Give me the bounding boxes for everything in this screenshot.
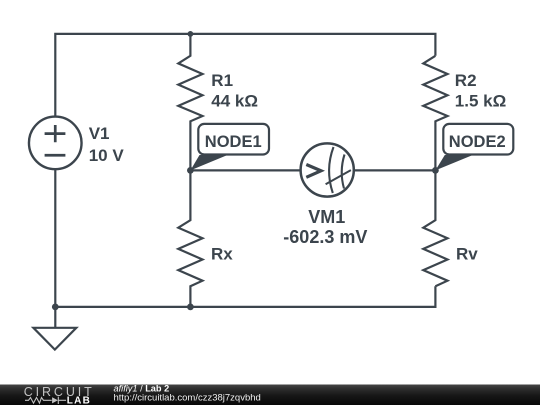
svg-text:Rx: Rx [211, 245, 233, 264]
svg-text:1.5 kΩ: 1.5 kΩ [455, 91, 506, 110]
svg-text:Rv: Rv [456, 245, 478, 264]
svg-text:http://circuitlab.com/czz38j7z: http://circuitlab.com/czz38j7zqvbhd [114, 393, 261, 404]
svg-text:NODE1: NODE1 [205, 133, 262, 151]
svg-text:44 kΩ: 44 kΩ [211, 91, 258, 110]
svg-text:-602.3 mV: -602.3 mV [283, 227, 367, 247]
svg-text:R1: R1 [211, 71, 233, 90]
svg-text:10 V: 10 V [89, 146, 125, 165]
svg-text:R2: R2 [455, 71, 477, 90]
svg-text:V1: V1 [89, 124, 110, 143]
svg-text:LAB: LAB [67, 396, 91, 405]
svg-text:NODE2: NODE2 [449, 133, 506, 151]
svg-text:VM1: VM1 [308, 207, 345, 227]
